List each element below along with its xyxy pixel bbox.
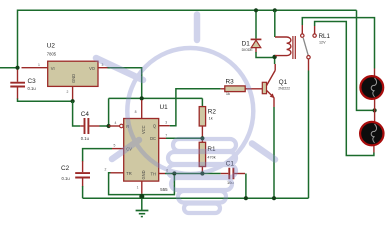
wire Q1 emitter to rail bbox=[273, 107, 275, 198]
svg-text:555: 555 bbox=[160, 187, 168, 192]
node reset junction bbox=[107, 124, 111, 128]
regulator U2 7805 bbox=[22, 43, 108, 101]
pin 2 TR lead bbox=[111, 172, 124, 174]
svg-text:3: 3 bbox=[165, 121, 167, 125]
wire Q output up and over to R3 bbox=[170, 89, 221, 126]
svg-text:7805: 7805 bbox=[47, 52, 57, 57]
svg-text:C4: C4 bbox=[81, 111, 90, 118]
capacitor C4 bbox=[80, 111, 99, 141]
node lamps mid junction bbox=[373, 108, 377, 112]
node coil rail junction bbox=[273, 8, 277, 12]
wire C4 to reset junction bbox=[100, 125, 109, 127]
wire U2 GND down to C4 bbox=[73, 101, 81, 126]
svg-text:12V: 12V bbox=[319, 41, 326, 45]
svg-text:0.1u: 0.1u bbox=[62, 176, 71, 181]
pin 4 R lead with bubble bbox=[109, 125, 120, 127]
pin 7 DC lead bbox=[159, 137, 166, 139]
capacitor C3 bbox=[10, 69, 36, 99]
wire relay common to ground rail bbox=[308, 71, 310, 199]
node collector junction bbox=[272, 55, 276, 59]
node emitter rail junction bbox=[272, 196, 276, 200]
node GND junction bbox=[139, 194, 144, 199]
node DC junction bbox=[200, 136, 204, 140]
svg-text:U1: U1 bbox=[160, 104, 169, 111]
wire C3 bottom to U2 GND bbox=[18, 99, 73, 102]
pin 3 Q lead bbox=[159, 125, 170, 127]
wire TH rail bbox=[165, 173, 221, 175]
svg-text:R3: R3 bbox=[226, 79, 235, 86]
svg-text:1k: 1k bbox=[209, 116, 213, 121]
watermark lightbulb logo bbox=[96, 15, 275, 214]
svg-text:VO: VO bbox=[89, 66, 95, 71]
svg-text:1: 1 bbox=[137, 185, 139, 189]
node pin8 junction bbox=[140, 96, 144, 100]
svg-text:D1: D1 bbox=[242, 40, 251, 47]
resistor R1 bbox=[199, 142, 216, 172]
node D1 rail junction bbox=[254, 8, 258, 12]
pin 1 GND lead bbox=[141, 181, 143, 194]
ground bbox=[136, 198, 149, 216]
relay RL1 coil bbox=[275, 10, 331, 59]
lamp L1 bbox=[360, 69, 383, 111]
wire NO contact to lamp1 top bbox=[302, 18, 374, 69]
svg-text:2: 2 bbox=[67, 90, 69, 94]
capacitor C1 bbox=[221, 160, 245, 185]
node R1 bottom junction bbox=[200, 171, 204, 175]
svg-text:TR: TR bbox=[126, 171, 132, 176]
pin 8 VCC lead bbox=[141, 100, 143, 119]
timer U1 555 bbox=[105, 100, 170, 194]
svg-text:7: 7 bbox=[165, 133, 167, 137]
lamp L2 bbox=[360, 110, 383, 152]
node U2 GND junction bbox=[71, 99, 75, 103]
diode D1 bbox=[242, 10, 262, 52]
wire collector junction down bbox=[274, 58, 276, 65]
svg-text:Q1: Q1 bbox=[279, 79, 288, 86]
wire VCC horizontal to R2 bbox=[109, 98, 203, 126]
wire CV to C2 bbox=[83, 149, 112, 162]
resistor R2 bbox=[199, 107, 216, 143]
svg-text:0.1u: 0.1u bbox=[28, 86, 37, 91]
svg-text:8: 8 bbox=[135, 110, 137, 114]
svg-text:2: 2 bbox=[105, 168, 107, 172]
wire top +12V rail bbox=[0, 10, 357, 67]
node C1 rail junction bbox=[244, 196, 248, 200]
wire C2 bottom to ground rail bbox=[82, 186, 84, 198]
node TH junction bbox=[172, 171, 176, 175]
wire ground rail bbox=[83, 197, 309, 199]
svg-text:R2: R2 bbox=[208, 109, 217, 116]
svg-text:GND: GND bbox=[141, 170, 146, 179]
transistor Q1 2N2222 bbox=[262, 64, 290, 107]
relay RL1 switch bbox=[301, 34, 317, 71]
wire TR loop to TH bbox=[109, 173, 175, 195]
svg-text:5: 5 bbox=[114, 143, 116, 147]
svg-text:1k: 1k bbox=[226, 91, 230, 96]
svg-text:DIODE: DIODE bbox=[242, 48, 254, 52]
svg-text:4: 4 bbox=[115, 121, 117, 125]
svg-text:C2: C2 bbox=[61, 165, 70, 172]
svg-text:C3: C3 bbox=[28, 78, 37, 85]
wire DC pin to R2/R1 junction bbox=[166, 137, 202, 139]
svg-text:Q: Q bbox=[153, 124, 156, 129]
pin 6 TH lead bbox=[159, 173, 165, 175]
wire U2 VO to pin8 drop bbox=[108, 68, 142, 99]
svg-text:1: 1 bbox=[38, 63, 40, 67]
svg-text:GND: GND bbox=[71, 74, 76, 83]
svg-text:VCC: VCC bbox=[141, 125, 146, 134]
svg-text:RL1: RL1 bbox=[319, 33, 331, 40]
resistor R3 bbox=[221, 79, 263, 97]
wire NC contact to lamp2 bottom bbox=[315, 22, 374, 156]
svg-text:470k: 470k bbox=[207, 155, 215, 159]
node C3 top junction bbox=[15, 66, 19, 70]
wire rail drop to lamps mid junction bbox=[357, 10, 375, 110]
svg-text:VI: VI bbox=[51, 66, 55, 71]
pin 5 CV lead bbox=[112, 148, 124, 150]
wire D1 anode to collector junction bbox=[256, 52, 275, 58]
wire C1 right down to rail bbox=[245, 174, 247, 199]
wire GND pin to rail bbox=[141, 194, 143, 198]
svg-text:0.1u: 0.1u bbox=[81, 136, 90, 141]
svg-text:2N2222: 2N2222 bbox=[278, 86, 290, 90]
svg-text:TH: TH bbox=[151, 171, 157, 176]
svg-text:U2: U2 bbox=[47, 43, 56, 50]
capacitor C2 bbox=[61, 161, 90, 187]
svg-text:DC: DC bbox=[150, 136, 156, 141]
